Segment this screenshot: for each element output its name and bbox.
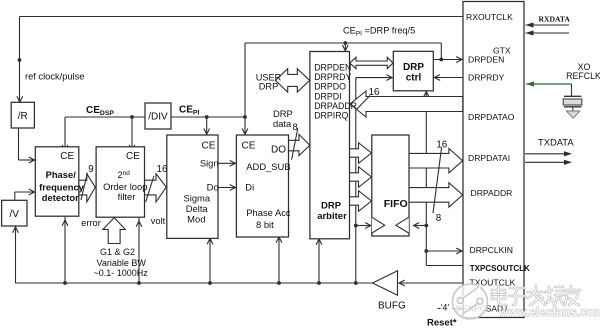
- svg-text:DRPDEN: DRPDEN: [468, 55, 504, 65]
- svg-text:16: 16: [369, 87, 380, 98]
- svg-text:DRPCLKIN: DRPCLKIN: [470, 245, 513, 255]
- svg-text:CE: CE: [202, 140, 216, 151]
- svg-text:DO: DO: [271, 144, 286, 155]
- svg-text:FIFO: FIFO: [384, 198, 408, 210]
- svg-text:DRPRDY: DRPRDY: [314, 72, 351, 82]
- svg-text:DRP: DRP: [321, 201, 342, 212]
- svg-text:Do: Do: [207, 182, 219, 193]
- svg-text:16: 16: [436, 140, 447, 151]
- svg-text:TXDATA: TXDATA: [538, 137, 574, 148]
- svg-text:CE: CE: [60, 151, 74, 162]
- svg-text:/V: /V: [9, 209, 19, 220]
- svg-text:16: 16: [157, 164, 168, 175]
- svg-text:8: 8: [436, 213, 442, 224]
- svg-text:Variable BW: Variable BW: [97, 258, 147, 268]
- svg-text:filter: filter: [118, 191, 136, 202]
- svg-text:RXOUTCLK: RXOUTCLK: [466, 12, 513, 22]
- svg-text:volt: volt: [151, 216, 166, 226]
- svg-text:DRPRDY: DRPRDY: [468, 73, 505, 83]
- svg-text:Di: Di: [245, 182, 254, 193]
- svg-text:Phase/: Phase/: [46, 169, 77, 180]
- svg-text:‘4’: ‘4’: [441, 303, 450, 313]
- svg-text:BUFG: BUFG: [378, 301, 406, 312]
- svg-text:/R: /R: [18, 111, 28, 122]
- svg-text:Mod: Mod: [187, 214, 205, 225]
- svg-text:www.elecfans.com: www.elecfans.com: [498, 305, 600, 319]
- svg-text:Phase Acc: Phase Acc: [246, 207, 291, 218]
- svg-text:RXDATA: RXDATA: [539, 14, 571, 23]
- svg-text:Sigma: Sigma: [184, 192, 211, 203]
- svg-text:DRPDATAI: DRPDATAI: [468, 153, 510, 163]
- svg-text:Sign: Sign: [200, 157, 219, 168]
- svg-text:arbiter: arbiter: [317, 211, 347, 222]
- svg-text:8: 8: [293, 121, 298, 132]
- svg-text:DRP: DRP: [403, 62, 424, 73]
- svg-text:DRPDO: DRPDO: [314, 82, 346, 92]
- svg-text:ref clock/pulse: ref clock/pulse: [25, 72, 84, 82]
- svg-text:8 bit: 8 bit: [256, 219, 274, 230]
- svg-text:~0.1- 1000Hz: ~0.1- 1000Hz: [94, 268, 149, 278]
- svg-text:DRPDATAO: DRPDATAO: [468, 112, 515, 122]
- svg-text:9: 9: [88, 164, 93, 175]
- svg-text:DRPIRQ: DRPIRQ: [314, 111, 348, 121]
- svg-text:CE: CE: [126, 151, 140, 162]
- svg-text:DRPDI: DRPDI: [314, 91, 341, 101]
- svg-text:DRPADDR: DRPADDR: [314, 101, 357, 111]
- svg-text:Delta: Delta: [186, 203, 209, 214]
- svg-text:DRP: DRP: [259, 81, 278, 91]
- svg-text:DRPADDR: DRPADDR: [471, 188, 513, 198]
- svg-text:REFCLK: REFCLK: [566, 71, 600, 81]
- svg-text:detector: detector: [42, 192, 79, 203]
- svg-text:G1 & G2: G1 & G2: [100, 247, 135, 257]
- svg-text:data: data: [273, 118, 292, 129]
- svg-text:TXPCSOUTCLK: TXPCSOUTCLK: [470, 264, 530, 273]
- svg-text:Reset*: Reset*: [427, 318, 457, 328]
- svg-text:frequency: frequency: [39, 182, 85, 193]
- svg-text:DRPDEN: DRPDEN: [314, 63, 351, 73]
- svg-text:ctrl: ctrl: [406, 73, 422, 84]
- svg-text:/DIV: /DIV: [148, 111, 168, 122]
- svg-text:CE: CE: [242, 140, 256, 151]
- svg-text:ADD_SUB: ADD_SUB: [246, 161, 290, 172]
- svg-text:error: error: [81, 218, 101, 228]
